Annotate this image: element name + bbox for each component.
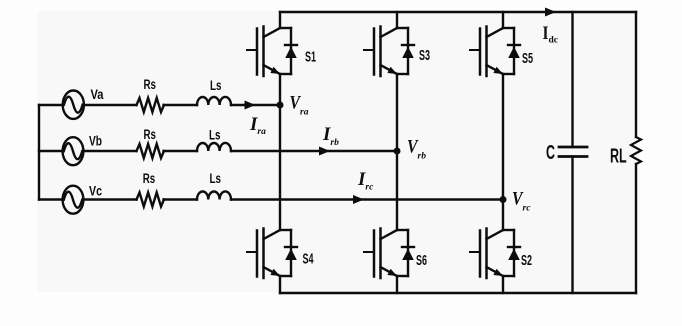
svg-text:S3: S3 [419, 47, 430, 64]
IGBT S5 with antiparallel diode (top, phase c) [470, 27, 520, 77]
wire: leg a collector lead from top rail to S1 [279, 12, 281, 28]
IGBT S2 with antiparallel diode (bottom, phase c) [470, 229, 520, 279]
inductor Ls (phase b) [197, 143, 231, 151]
wire: phase c between Rs and Ls [164, 198, 198, 200]
svg-text:Vb: Vb [89, 134, 102, 149]
current arrow I_rc on phase c [353, 195, 364, 204]
IGBT S4 with antiparallel diode (bottom, phase a) [247, 229, 297, 279]
svg-text:S4: S4 [303, 251, 314, 268]
current arrow I_ra on phase a [245, 101, 256, 110]
wire: DC-link capacitor branch lower lead [571, 157, 573, 294]
svg-text:S2: S2 [521, 252, 532, 269]
wire: leg a from S1 emitter to node Vra [279, 74, 281, 105]
wire: leg b from S3 emitter to node Vrb [396, 74, 398, 151]
wire: phase b from source to resistor [83, 150, 136, 152]
wire: bottom DC rail [280, 292, 636, 294]
IGBT S3 with antiparallel diode (top, phase b) [364, 27, 414, 77]
wire: phase b between Rs and Ls [164, 150, 198, 152]
svg-text:S1: S1 [305, 49, 316, 66]
wire: leg b collector lead from top rail to S3 [396, 12, 398, 28]
wire: phase c from source to resistor [83, 198, 136, 200]
node Vra junction dot [277, 102, 284, 109]
wire: leg c from node Vrc down to S2 [502, 200, 504, 231]
node Vrb junction dot [394, 148, 401, 155]
wire: leg b from node Vrb down to S6 [396, 151, 398, 230]
wire: leg c collector lead from top rail to S5 [502, 12, 504, 28]
current arrow I_dc on top rail [545, 8, 556, 17]
svg-text:Vc: Vc [89, 184, 102, 199]
node Vrc junction dot [500, 196, 507, 203]
wire: leg a from S4 emitter to bottom rail [279, 276, 281, 293]
svg-text:C: C [546, 141, 555, 164]
svg-text:Rs: Rs [144, 77, 157, 92]
wire: leg c from S2 emitter to bottom rail [502, 276, 504, 293]
svg-text:S5: S5 [522, 50, 533, 67]
svg-text:Rs: Rs [143, 171, 156, 186]
voltage source Vc [39, 198, 63, 200]
resistor RL (load) [631, 137, 641, 164]
wire: phase c from Ls to node Vrc [231, 198, 503, 200]
inductor Ls (phase a) [197, 97, 231, 105]
wire: leg a from node Vra down to S4 [279, 105, 281, 230]
svg-text:Ls: Ls [210, 171, 222, 186]
resistor Rs (phase b) [137, 144, 165, 158]
inductor Ls (phase c) [197, 191, 231, 199]
svg-text:Va: Va [91, 87, 104, 102]
wire: load branch upper lead (right edge) [635, 12, 637, 137]
voltage source Va [39, 104, 63, 106]
wire: load branch lower lead [635, 164, 637, 293]
capacitor C plates [559, 146, 587, 149]
svg-text:Ls: Ls [209, 128, 221, 143]
svg-text:RL: RL [610, 145, 627, 167]
wire: phase a between Rs and Ls [164, 104, 198, 106]
resistor Rs (phase a) [137, 98, 165, 112]
wire: leg b from S6 emitter to bottom rail [396, 276, 398, 293]
svg-text:Ls: Ls [210, 78, 222, 93]
wire: top DC rail [280, 11, 636, 13]
wire: DC-link capacitor branch upper lead [571, 12, 573, 147]
current arrow I_rb on phase b [319, 147, 330, 156]
wire: leg c from S5 emitter to node Vrc [502, 74, 504, 200]
svg-text:Rs: Rs [144, 127, 157, 142]
voltage source Vb [39, 150, 63, 152]
resistor Rs (phase c) [137, 193, 165, 207]
wire: phase a from source to resistor [84, 104, 137, 106]
svg-text:S6: S6 [416, 252, 427, 269]
wire: left neutral bus connecting the three sources [38, 105, 40, 200]
wire: phase a from Ls to node Vra [231, 104, 280, 106]
wire: phase b from Ls to node Vrb [231, 150, 397, 152]
IGBT S1 with antiparallel diode (top, phase a) [247, 27, 297, 77]
IGBT S6 with antiparallel diode (bottom, phase b) [364, 229, 414, 279]
